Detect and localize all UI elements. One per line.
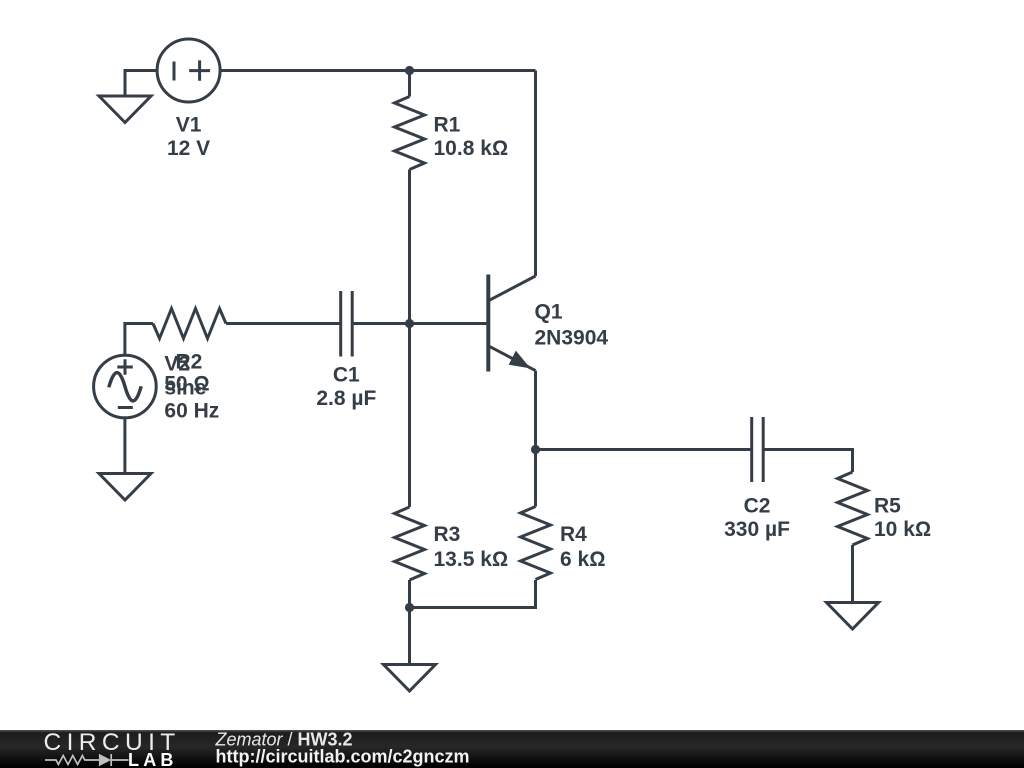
voltage source V1 circle (157, 39, 220, 102)
wire node to R1 top (408, 71, 411, 97)
svg-text:http://circuitlab.com/c2gnczm: http://circuitlab.com/c2gnczm (216, 747, 470, 767)
svg-text:2.8 µF: 2.8 µF (316, 387, 376, 410)
wire C1 to base node (352, 322, 409, 325)
voltage source V2 circle (94, 355, 157, 418)
V1 plus symbol (189, 60, 210, 80)
capacitor C1 plates (341, 291, 353, 357)
svg-text:10.8 kΩ: 10.8 kΩ (434, 137, 509, 160)
svg-text:10 kΩ: 10 kΩ (874, 518, 931, 541)
Q1 collector diagonal (488, 276, 535, 301)
wire V1 left lead to ground (125, 71, 158, 97)
ground (V2) (99, 474, 151, 501)
Q1 emitter arrow (510, 352, 529, 367)
wire R2 to C1 (226, 322, 341, 325)
wire emitter vertical (534, 371, 537, 450)
resistor R4 body (521, 507, 551, 580)
Q1 emitter diagonal (488, 346, 535, 371)
footer bar (0, 730, 1024, 768)
ground (R3/R4 node) (384, 665, 436, 692)
svg-text:50 Ω: 50 Ω (164, 373, 209, 396)
ground (V1) (99, 96, 151, 123)
wire R4 top to emitter node (534, 450, 537, 507)
wire base node to Q1 base (410, 322, 489, 325)
resistor R3 body (395, 507, 425, 580)
svg-text:V1: V1 (176, 114, 202, 137)
wire R3 bottom to bottom node (408, 580, 411, 608)
svg-text:330 µF: 330 µF (724, 518, 790, 541)
resistor R5 body (838, 472, 868, 545)
V2 sine symbol (109, 373, 141, 401)
node junction base / C1 (405, 319, 414, 328)
svg-text:13.5 kΩ: 13.5 kΩ (434, 548, 509, 571)
svg-text:R4: R4 (560, 523, 587, 546)
logo resistor-diode squiggle (45, 754, 129, 766)
svg-text:R1: R1 (434, 114, 461, 137)
wire V1 output rail to collector corner (220, 69, 535, 72)
resistor R2 body (153, 309, 226, 339)
node junction V1 rail / R1 (405, 66, 414, 75)
resistor R1 body (395, 97, 425, 170)
ground (R5) (827, 603, 879, 630)
wire base node down to R3 (408, 324, 411, 508)
wire collector vertical (534, 71, 537, 277)
svg-text:Q1: Q1 (535, 301, 563, 324)
V2 plus symbol (117, 359, 133, 374)
wire R5 bottom to ground (851, 545, 854, 603)
wire C2 to R5 (763, 450, 852, 473)
svg-text:R3: R3 (434, 523, 461, 546)
svg-text:2N3904: 2N3904 (535, 327, 609, 350)
wire V2 top lead (125, 324, 153, 356)
svg-text:12 V: 12 V (167, 137, 210, 160)
wire bottom node to ground (408, 608, 411, 665)
svg-text:LAB: LAB (128, 750, 178, 768)
node junction emitter / R4 / C2 (531, 445, 540, 454)
wire emitter node to C2 (536, 448, 752, 451)
wire bottom node to R4 bottom (410, 580, 536, 608)
svg-text:R5: R5 (874, 495, 901, 518)
svg-text:R2: R2 (176, 351, 203, 374)
svg-text:6 kΩ: 6 kΩ (560, 548, 605, 571)
wire V2 bottom lead (123, 418, 126, 474)
transistor Q1 base bar (486, 275, 490, 372)
svg-text:C2: C2 (744, 495, 771, 518)
node junction R3 / R4 / ground (405, 603, 414, 612)
svg-text:C1: C1 (333, 364, 360, 387)
capacitor C2 plates (752, 417, 764, 482)
V1 minus symbol (173, 62, 176, 81)
V2 minus symbol (118, 406, 133, 409)
wire R1 bottom to base node (408, 170, 411, 324)
svg-text:60 Hz: 60 Hz (164, 400, 219, 423)
